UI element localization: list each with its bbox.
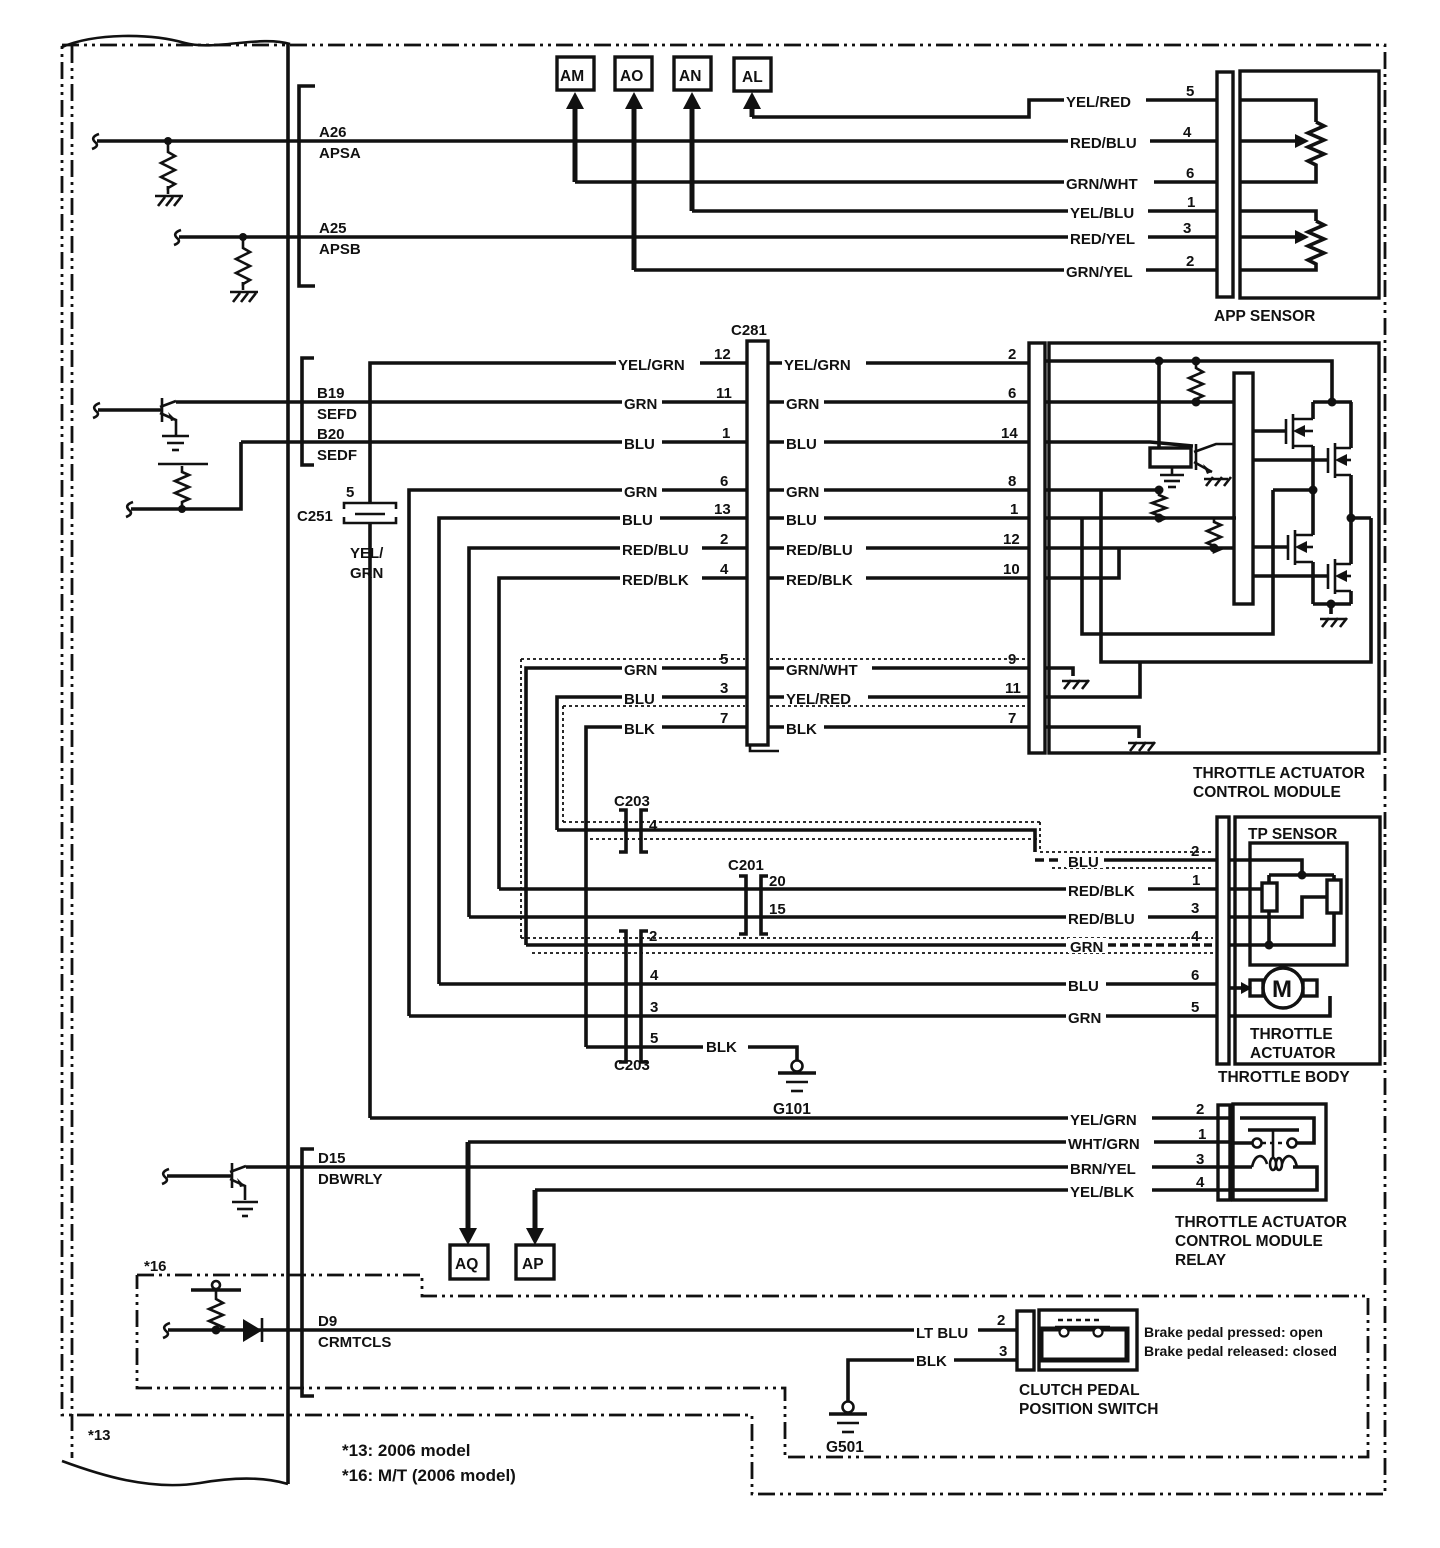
wire GRN/YEL riser into AO with arrow <box>625 92 643 270</box>
junction dot resistor bottom <box>1155 514 1164 523</box>
wire TACM pin 1 internal <box>1045 516 1236 520</box>
svg-text:RED/BLK: RED/BLK <box>1068 883 1135 900</box>
wire TACM pin 14 internal to relay-coil box / transistor base <box>1045 442 1193 446</box>
relay coil pin4 return <box>1240 1167 1317 1190</box>
svg-text:YEL/BLK: YEL/BLK <box>1070 1184 1134 1201</box>
svg-text:3: 3 <box>1191 900 1199 917</box>
svg-text:6: 6 <box>720 473 728 490</box>
clutch pedal position switch box <box>1039 1310 1137 1370</box>
wire label YEL/ GRN (C251) <box>348 545 392 582</box>
wire B19/SEFD row <box>176 400 747 404</box>
svg-text:THROTTLE ACTUATOR: THROTTLE ACTUATOR <box>1193 765 1365 782</box>
wire B20/SEDF row <box>241 440 747 444</box>
ground (bar style) DBWRLY emitter <box>232 1202 258 1216</box>
svg-text:YEL/GRN: YEL/GRN <box>1070 1112 1137 1129</box>
svg-text:Brake pedal released: closed: Brake pedal released: closed <box>1144 1343 1337 1359</box>
svg-text:15: 15 <box>769 901 786 918</box>
wire YEL/BLU riser into AN with arrow <box>683 92 701 211</box>
relay coil <box>1252 1156 1297 1170</box>
wire label GRN/YEL <box>1064 263 1146 281</box>
wire TACM pin 11 internal riser <box>1045 662 1140 697</box>
wire A25/APSB internal stub with squiggle end <box>174 230 298 245</box>
ground (chassis 777) at transistor emitter <box>1204 477 1231 486</box>
wire TACM pin 10 internal <box>1045 548 1119 578</box>
svg-text:RED/BLU: RED/BLU <box>1070 135 1137 152</box>
wire BLU shielded (pin3 leg through C203 to TP pin 2) <box>557 830 1035 852</box>
monitor box (TACM internal) <box>1150 448 1191 467</box>
svg-text:BRN/YEL: BRN/YEL <box>1070 1161 1136 1178</box>
APP sensor potentiometer 1 <box>1240 100 1324 182</box>
wire label YEL/RED (pin11 right) <box>784 690 868 708</box>
wire label GRN (pin5 left) <box>622 661 662 679</box>
wire label BLU (pin13 left) <box>620 511 660 529</box>
svg-text:GRN: GRN <box>1070 939 1103 956</box>
wire SEDF return with squiggle end <box>126 442 241 517</box>
connector box AN <box>674 57 711 90</box>
svg-text:B20: B20 <box>317 426 345 443</box>
pin label B20 / SEDF <box>317 426 357 464</box>
wire label BLK (pin7 right) <box>784 720 824 738</box>
svg-text:BLU: BLU <box>622 512 653 529</box>
wire label GRN/WHT (pin9 right) <box>784 661 872 679</box>
svg-text:AL: AL <box>742 69 763 86</box>
junction dot TP bottom <box>1265 941 1274 950</box>
svg-text:4: 4 <box>649 817 658 834</box>
svg-text:3: 3 <box>999 1343 1007 1360</box>
wire GRN/WHT riser into AM with arrow <box>566 92 584 182</box>
relay contact dashed link <box>1262 1142 1287 1145</box>
wire BLU (C281 pin13 to TACM pin 1) <box>768 516 1029 520</box>
wire GRN shielded (C281 pin 5 leg) <box>526 668 747 945</box>
svg-text:YEL/GRN: YEL/GRN <box>784 357 851 374</box>
wire TACM pin 6 internal to IC <box>1045 400 1234 404</box>
ECM/PCM module outline (torn-edge box) <box>62 36 290 1485</box>
svg-text:GRN/WHT: GRN/WHT <box>1066 176 1138 193</box>
label THROTTLE ACTUATOR CONTROL MODULE RELAY <box>1175 1214 1347 1269</box>
clutch switch element <box>1041 1320 1127 1360</box>
svg-text:POSITION SWITCH: POSITION SWITCH <box>1019 1401 1159 1418</box>
svg-text:AQ: AQ <box>455 1256 478 1273</box>
wire label YEL/BLU <box>1068 204 1148 222</box>
wire YEL/RED (C281 pin3 to TACM pin 11) <box>768 695 1029 699</box>
wire RED/YEL (A25 to APP sensor pin 3) <box>299 235 1217 239</box>
resistor (TACM internal pull) <box>1189 361 1203 400</box>
svg-text:GRN/WHT: GRN/WHT <box>786 662 858 679</box>
svg-text:A26: A26 <box>319 124 347 141</box>
wire label RED/BLK (pin10 right) <box>784 571 866 589</box>
svg-text:BLU: BLU <box>624 691 655 708</box>
svg-text:BLU: BLU <box>624 436 655 453</box>
inline connector C201 <box>739 876 768 934</box>
wire RED/BLK (pin4 leg through C201 to TP pin 1) <box>499 887 1217 891</box>
svg-text:1: 1 <box>1198 1126 1206 1143</box>
svg-text:2: 2 <box>649 928 657 945</box>
svg-text:SEFD: SEFD <box>317 406 357 423</box>
TP resistor element 1 <box>1262 875 1277 911</box>
wire RED/BLU (C281 pin2 to TACM pin 12) <box>768 546 1029 550</box>
svg-text:THROTTLE: THROTTLE <box>1250 1026 1333 1043</box>
junction dot TP top <box>1298 871 1307 880</box>
resistor (sense, between pin8 and pin1 nets) <box>1152 490 1166 521</box>
svg-text:GRN: GRN <box>350 565 383 582</box>
junction dot A26 <box>164 137 172 145</box>
svg-text:6: 6 <box>1008 385 1016 402</box>
svg-text:3: 3 <box>720 680 728 697</box>
svg-text:12: 12 <box>714 346 731 363</box>
junction dot on pin6 wire <box>1192 398 1201 407</box>
wire BLK (clutch to G501) <box>848 1360 1017 1402</box>
wire YEL/GRN (C281 pin12 to TACM pin 2) <box>768 361 1029 365</box>
connector bar throttle body <box>1217 817 1229 1064</box>
wire pin1 branch down to bridge output A <box>1082 490 1273 634</box>
junction dot D9 wire <box>212 1326 221 1335</box>
transistor (TACM internal driver) <box>1194 444 1234 474</box>
TP sensor inner box <box>1250 843 1347 965</box>
wire label BLU (pin3 left) <box>622 690 662 708</box>
wire label BLU (TP pin2) <box>1066 853 1106 871</box>
svg-text:8: 8 <box>1008 473 1016 490</box>
wire BLK (pin7 leg to G101) <box>586 1047 797 1061</box>
svg-text:2: 2 <box>1008 346 1016 363</box>
svg-text:G101: G101 <box>773 1101 811 1118</box>
wire label YEL/GRN (relay) <box>1068 1111 1152 1129</box>
ground G501 (earth symbol) <box>829 1402 867 1433</box>
inline connector C203 (upper) <box>619 810 648 852</box>
svg-text:C203: C203 <box>614 1057 650 1074</box>
junction dot pin8/resistor <box>1155 486 1164 495</box>
svg-text:BLK: BLK <box>786 721 817 738</box>
wire BLK (C281 pin7 to TACM pin 7) <box>768 725 1029 729</box>
IC block (gate driver) <box>1234 373 1253 604</box>
wire source rail to ground <box>1329 604 1333 614</box>
connector box AP <box>516 1245 554 1279</box>
svg-text:RED/BLU: RED/BLU <box>622 542 689 559</box>
TP resistor1 bottom leg <box>1267 911 1271 945</box>
throttle actuator motor M <box>1250 968 1317 1008</box>
transistor Q (SEFD driver) with base squiggle wire <box>93 398 176 435</box>
svg-text:*16: M/T (2006 model): *16: M/T (2006 model) <box>342 1466 516 1485</box>
wire label BRN/YEL (relay) <box>1068 1160 1152 1178</box>
label THROTTLE ACTUATOR CONTROL MODULE <box>1193 765 1365 801</box>
pin label A25 / APSB <box>319 220 361 258</box>
svg-text:GRN: GRN <box>624 396 657 413</box>
svg-text:2: 2 <box>720 531 728 548</box>
svg-text:*13: 2006 model: *13: 2006 model <box>342 1441 471 1460</box>
wire GRN/WHT (C281 pin5 to TACM pin 9) <box>768 666 1029 670</box>
connector box AM <box>557 57 594 90</box>
svg-text:*13: *13 <box>88 1427 111 1444</box>
wire GRN shielded (to TP pin 4) <box>526 943 1217 947</box>
svg-text:BLU: BLU <box>786 436 817 453</box>
wire BLK (C281 pin 7 leg) <box>586 727 747 1047</box>
junction dot source rail <box>1327 600 1336 609</box>
connector C281 (inline connector body) <box>747 341 779 751</box>
TP sensor top rail <box>1269 873 1334 877</box>
svg-text:1: 1 <box>722 425 730 442</box>
svg-text:ACTUATOR: ACTUATOR <box>1250 1045 1336 1062</box>
wire label BLK (pin7 left) <box>622 720 662 738</box>
connector bar TACM <box>1029 343 1045 753</box>
wire label BLU (pin1 right) <box>784 511 824 529</box>
wire label WHT/GRN (relay) <box>1066 1135 1154 1153</box>
wire TACM pin 12 internal <box>1045 546 1234 550</box>
svg-text:C251: C251 <box>297 508 333 525</box>
svg-text:20: 20 <box>769 873 786 890</box>
wire label YEL/BLK (relay) <box>1068 1183 1152 1201</box>
wire label YEL/GRN (left of C281) <box>616 356 700 374</box>
connector bracket D15/D9 <box>302 1149 314 1396</box>
wire riser to AP with arrow <box>526 1190 544 1245</box>
svg-text:5: 5 <box>346 484 354 501</box>
svg-text:6: 6 <box>1191 967 1199 984</box>
wire label GRN (pin8 right) <box>784 483 824 501</box>
wire TACM pin 8 internal <box>1045 488 1161 492</box>
wire label RED/BLU <box>1068 134 1150 152</box>
pin label A26 / APSA <box>319 124 361 162</box>
ground (chassis 777) pin 9 <box>1062 680 1089 689</box>
svg-text:4: 4 <box>650 967 659 984</box>
svg-text:6: 6 <box>1186 165 1194 182</box>
wire BLU (pin13 leg to actuator pin 6) <box>439 982 1217 986</box>
svg-text:BLU: BLU <box>1068 854 1099 871</box>
relay contact left <box>1253 1139 1262 1148</box>
svg-text:D9: D9 <box>318 1313 337 1330</box>
svg-text:5: 5 <box>1191 999 1199 1016</box>
svg-text:4: 4 <box>1191 928 1200 945</box>
svg-text:BLK: BLK <box>624 721 655 738</box>
svg-text:C281: C281 <box>731 322 767 339</box>
svg-text:AM: AM <box>560 68 584 85</box>
wire label YEL/RED <box>1064 93 1146 111</box>
wire TACM pin 7 internal to ground <box>1045 727 1139 738</box>
wire label BLU (actuator pin6) <box>1066 977 1106 995</box>
svg-text:GRN/YEL: GRN/YEL <box>1066 264 1133 281</box>
junction dot output A <box>1309 486 1318 495</box>
wire TACM pin 9 internal to ground <box>1045 668 1073 676</box>
svg-text:CONTROL MODULE: CONTROL MODULE <box>1193 784 1341 801</box>
svg-text:B19: B19 <box>317 385 345 402</box>
svg-text:BLK: BLK <box>916 1353 947 1370</box>
svg-text:4: 4 <box>720 561 729 578</box>
wire actuator pin5 to motor right <box>1229 996 1330 1016</box>
MOSFET Q1 (high-side A) <box>1253 402 1313 490</box>
wire BLU stub to TP pin2 <box>1104 858 1217 862</box>
svg-text:10: 10 <box>1003 561 1020 578</box>
wire label RED/BLU (pin12 right) <box>784 541 866 559</box>
APP sensor potentiometer 2 <box>1240 211 1324 270</box>
svg-text:4: 4 <box>1196 1174 1205 1191</box>
wire YEL/GRN (ECM to C281 pin 12) <box>370 363 747 503</box>
relay box <box>1233 1104 1326 1200</box>
svg-text:M: M <box>1272 976 1292 1003</box>
svg-text:11: 11 <box>1005 680 1021 697</box>
connector bar relay <box>1218 1105 1230 1200</box>
svg-text:APSB: APSB <box>319 241 361 258</box>
ground (bar style) under monitor box <box>1160 467 1184 487</box>
TP sensor wiring pin4 <box>1229 913 1334 945</box>
junction dot pin12/resistor2 <box>1210 544 1219 553</box>
wire BLU (C281 pin 13 leg) <box>439 518 747 984</box>
svg-text:C203: C203 <box>614 793 650 810</box>
svg-text:CRMTCLS: CRMTCLS <box>318 1334 391 1351</box>
wire D15/DBWRLY row (BRN/YEL to relay pin 3) <box>246 1165 1233 1169</box>
svg-text:11: 11 <box>716 385 732 402</box>
APP sensor box <box>1240 71 1379 298</box>
wire label RED/BLK (TP pin1) <box>1066 882 1148 900</box>
resistor (*16 pull-up) <box>209 1290 223 1331</box>
wire label RED/BLU (pin2 left) <box>620 541 702 559</box>
wire BLU shielded (C281 pin 3 leg) <box>557 697 747 830</box>
resistor (ECM pull-down on APSB) <box>236 237 250 284</box>
svg-text:APP SENSOR: APP SENSOR <box>1214 308 1315 325</box>
svg-text:*16: *16 <box>144 1258 167 1275</box>
wire WHT/GRN (relay pin 1 to AQ) <box>468 1140 1233 1144</box>
wire label YEL/GRN (right of C281) <box>782 356 866 374</box>
wire A26/APSA internal stub with squiggle end <box>92 134 298 149</box>
svg-text:BLU: BLU <box>786 512 817 529</box>
TP sensor wiring pin3 (wiper) <box>1229 897 1327 917</box>
svg-text:1: 1 <box>1187 194 1195 211</box>
connector bracket A26/A25 <box>299 86 315 286</box>
connector box AO <box>615 57 652 90</box>
pin label B19 / SEFD <box>317 385 357 423</box>
wire GRN/WHT run (AM to APP sensor pin 6) <box>575 180 1217 184</box>
svg-text:4: 4 <box>1183 124 1192 141</box>
svg-text:C201: C201 <box>728 857 764 874</box>
svg-text:2: 2 <box>997 1312 1005 1329</box>
pin label D9 / CRMTCLS <box>318 1313 391 1351</box>
wire relay pin4 entry <box>1233 1188 1240 1192</box>
wire label RED/BLU (TP pin3) <box>1066 910 1148 928</box>
svg-text:3: 3 <box>1196 1151 1204 1168</box>
pull-up network in *16 zone: node bar with terminal circle <box>191 1281 241 1290</box>
capacitor plate + resistor to SEDF return <box>158 464 208 513</box>
MOSFET Q2 (high-side B) <box>1253 402 1351 518</box>
wire RED/BLK (C281 pin4 to TACM pin 10) <box>768 576 1029 580</box>
label CLUTCH PEDAL POSITION SWITCH <box>1019 1382 1159 1418</box>
svg-text:YEL/BLU: YEL/BLU <box>1070 205 1134 222</box>
svg-text:GRN: GRN <box>1068 1010 1101 1027</box>
connector bracket B19/B20 <box>302 358 314 465</box>
wire label GRN (TP pin4) <box>1068 938 1108 956</box>
svg-text:GRN: GRN <box>624 662 657 679</box>
ground G101 (earth symbol) <box>778 1061 816 1092</box>
wire actuator pin6 into motor <box>1229 982 1252 994</box>
svg-text:2: 2 <box>1191 843 1199 860</box>
wire label GRN (right) <box>784 395 824 413</box>
boundary: M/T 2006 model (*16) dash-dot frame <box>137 1275 1368 1457</box>
wire GRN/YEL run (AO to APP sensor pin 2) <box>634 268 1217 272</box>
svg-text:GRN: GRN <box>624 484 657 501</box>
svg-text:LT BLU: LT BLU <box>916 1325 968 1342</box>
svg-text:2: 2 <box>1196 1101 1204 1118</box>
ground (bar style) at SEFD transistor emitter <box>162 436 189 450</box>
wire GRN (C281 pin6 to TACM pin 8) <box>768 488 1029 492</box>
svg-text:CONTROL MODULE: CONTROL MODULE <box>1175 1233 1323 1250</box>
svg-text:3: 3 <box>650 999 658 1016</box>
wire label BLU (left of C281) <box>622 435 662 453</box>
svg-text:AP: AP <box>522 1256 544 1273</box>
svg-text:WHT/GRN: WHT/GRN <box>1068 1136 1140 1153</box>
inline connector C203 (lower) <box>619 931 648 1062</box>
junction dot supply a <box>1155 357 1164 366</box>
svg-text:RED/BLU: RED/BLU <box>1068 911 1135 928</box>
svg-text:TP SENSOR: TP SENSOR <box>1248 826 1337 843</box>
svg-text:A25: A25 <box>319 220 347 237</box>
svg-text:G501: G501 <box>826 1439 864 1456</box>
svg-text:YEL/RED: YEL/RED <box>1066 94 1131 111</box>
inline connector C251 <box>344 503 396 523</box>
wire RED/BLU (A26 to APP sensor pin 4) <box>299 139 1217 143</box>
relay contact pin1 wire <box>1233 1141 1252 1145</box>
ground (chassis 777) pin 7 <box>1128 742 1155 751</box>
TP sensor wiring pin1 <box>1229 887 1262 891</box>
svg-text:YEL/: YEL/ <box>350 545 384 562</box>
wire riser to AQ with arrow <box>459 1142 477 1245</box>
transistor (DBWRLY driver) with base squiggle wire <box>162 1163 246 1200</box>
svg-text:GRN: GRN <box>786 396 819 413</box>
svg-text:5: 5 <box>650 1030 658 1047</box>
wire supply rail (TACM pin 2 internal) <box>1045 361 1332 402</box>
svg-text:CLUTCH PEDAL: CLUTCH PEDAL <box>1019 1382 1140 1399</box>
junction dot drain rail <box>1328 398 1337 407</box>
TP sensor wiring pin2 <box>1229 860 1302 875</box>
pin label D15 / DBWRLY <box>318 1150 382 1188</box>
wire bridge source rail <box>1313 602 1351 606</box>
svg-text:BLK: BLK <box>706 1039 737 1056</box>
junction dot A25 <box>239 233 247 241</box>
svg-text:DBWRLY: DBWRLY <box>318 1171 382 1188</box>
wire GRN (pin6 leg to actuator pin 5) <box>409 1014 1217 1018</box>
throttle actuator control module box <box>1049 343 1379 753</box>
svg-text:1: 1 <box>1192 872 1200 889</box>
svg-text:RED/BLK: RED/BLK <box>622 572 689 589</box>
svg-text:RELAY: RELAY <box>1175 1252 1227 1269</box>
wire YEL/BLU run (AN to APP sensor pin 1) <box>692 209 1217 213</box>
svg-text:AO: AO <box>620 68 643 85</box>
wire label BLU (right) <box>784 435 824 453</box>
wire YEL/RED riser into AL with arrow <box>743 92 761 117</box>
throttle body box <box>1235 817 1380 1064</box>
svg-text:BLU: BLU <box>1068 978 1099 995</box>
svg-text:7: 7 <box>720 710 728 727</box>
svg-text:AN: AN <box>679 68 701 85</box>
connector bar APP sensor <box>1217 72 1233 297</box>
svg-text:3: 3 <box>1183 220 1191 237</box>
svg-text:13: 13 <box>714 501 731 518</box>
connector box AQ <box>450 1245 488 1279</box>
wire YEL/RED run (AL to APP sensor pin 5) <box>752 100 1217 117</box>
wire label RED/YEL <box>1068 230 1148 248</box>
svg-text:12: 12 <box>1003 531 1020 548</box>
wire GRN (C281 pin 6 leg) <box>409 490 747 1016</box>
wire YEL/BLK (relay pin 4 to AP) <box>535 1188 1233 1192</box>
wire label LT BLU <box>914 1324 978 1342</box>
svg-text:RED/BLU: RED/BLU <box>786 542 853 559</box>
MOSFET Q3 (low-side A) <box>1253 490 1313 604</box>
label THROTTLE ACTUATOR <box>1250 1026 1336 1062</box>
wire YEL/GRN (C251 leg to relay pin 2) <box>370 1116 1233 1120</box>
wire label GRN/WHT <box>1064 175 1154 193</box>
wire output B to right rail <box>1351 516 1371 520</box>
wire RED/BLU (pin2 leg through C201 to TP pin 3) <box>469 915 1217 919</box>
relay contact right <box>1288 1139 1297 1148</box>
wire RED/BLU (C281 pin 2 leg) <box>469 548 747 917</box>
svg-text:7: 7 <box>1008 710 1016 727</box>
wire YEL/GRN (C251 to relay leg, vertical) <box>368 524 372 1118</box>
wire D9/CRMTCLS with squiggle end <box>163 1323 1017 1338</box>
wire pin8 branch down to bridge output B <box>1101 490 1371 662</box>
